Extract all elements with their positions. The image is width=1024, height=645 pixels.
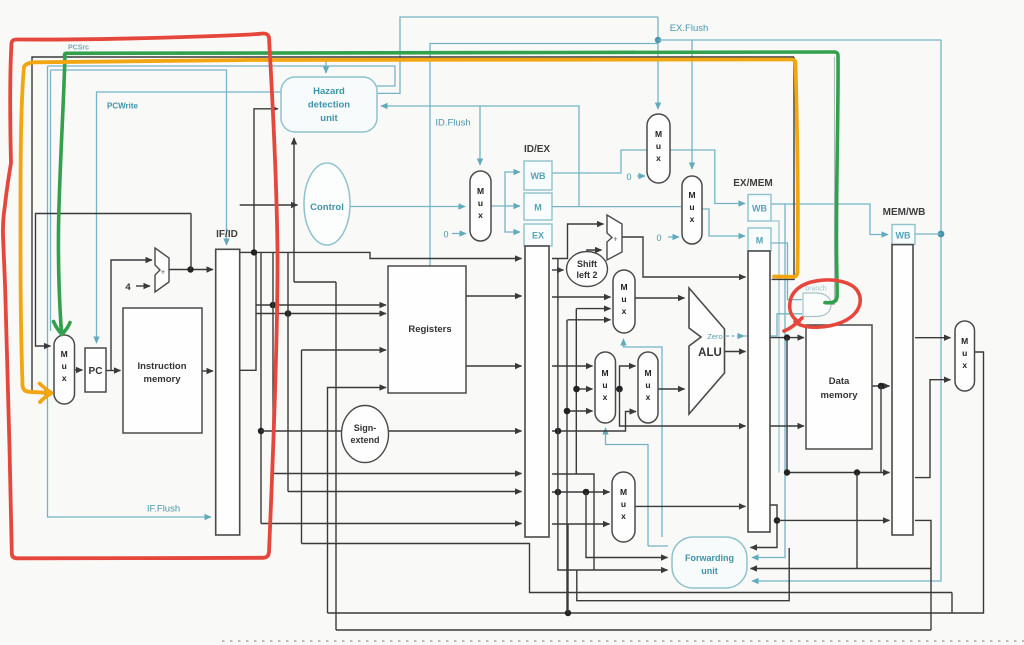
wire: IF/ID instruction output up to bus [240, 252, 256, 370]
svg-text:EX/MEM: EX/MEM [733, 178, 772, 189]
wire: control mux output fanout to ID/EX WB M EX [491, 172, 520, 206]
mux write register [612, 472, 635, 542]
wire: final mux output write back loop [328, 352, 984, 613]
wire: forward taps to mux B [577, 388, 593, 390]
node: read reg 1 junction [270, 302, 277, 309]
wire: EX/MEM WB control down to forwarding unit [752, 204, 785, 558]
orange trace of PC+4 flush path [20, 60, 797, 403]
svg-text:M: M [61, 349, 68, 359]
svg-text:PCSrc: PCSrc [68, 45, 89, 52]
svg-text:u: u [645, 380, 650, 390]
svg-text:M: M [655, 129, 662, 139]
wire: EX/MEM M branch signal to AND gate [771, 243, 802, 300]
svg-text:M: M [534, 203, 542, 213]
node: adder output junction [187, 266, 193, 272]
wire: EX.Flush horizontal to far right [658, 39, 941, 41]
svg-text:Hazard: Hazard [313, 86, 345, 97]
wire: registers numbers to write-reg mux [552, 491, 610, 493]
svg-text:IF.Flush: IF.Flush [147, 504, 180, 515]
wire: hazard unit to EX.Flush top line [377, 17, 658, 93]
AND gate branch [803, 293, 831, 317]
wire: read data 2 to forward mux B [552, 365, 593, 367]
wire: stall line down into hazard unit top [325, 60, 327, 73]
wire: ALUSrc mux output to ALU [658, 388, 685, 390]
svg-text:memory: memory [821, 390, 859, 401]
wire: adder output up [190, 214, 192, 270]
wire: zero constant into control mux [452, 233, 466, 235]
wire: PC to instruction memory [106, 370, 121, 372]
wire: EX.Flush mux output to EX/MEM WB [670, 150, 745, 204]
svg-text:+: + [613, 235, 618, 244]
wire: branch target top bus from EX/MEM back to PC mux [32, 57, 794, 393]
wire: Control output to zero mux [350, 206, 465, 208]
svg-text:x: x [62, 373, 67, 383]
svg-text:IF/ID: IF/ID [216, 229, 238, 240]
svg-text:ID/EX: ID/EX [524, 144, 550, 155]
wire: ID/EX M to M mux [552, 206, 681, 208]
svg-text:M: M [477, 186, 484, 196]
wire: forwarded EX/MEM value to mux A [568, 319, 611, 321]
mux forward A [613, 270, 635, 333]
wire: constant 4 into adder [136, 285, 150, 287]
wire: U link under forwarding unit [577, 548, 789, 601]
svg-text:u: u [602, 380, 607, 390]
svg-text:ALU: ALU [698, 347, 722, 359]
wire: hazard loop over top [48, 66, 396, 86]
wire: jog from hazard vertical [294, 281, 336, 283]
svg-text:u: u [621, 294, 626, 304]
mux M zero [682, 176, 702, 244]
svg-text:M: M [688, 190, 695, 200]
svg-text:WB: WB [752, 204, 767, 214]
svg-text:Control: Control [310, 202, 344, 213]
svg-text:M: M [620, 282, 627, 292]
wire: adder output to IF/ID [169, 269, 213, 271]
ellipse Sign-extend [342, 406, 389, 463]
Hazard detection unit [281, 77, 377, 132]
wire: zero into M mux [668, 236, 679, 238]
wire: vertical to bottom bus [335, 282, 337, 630]
svg-text:M: M [756, 236, 764, 246]
box Registers [388, 266, 466, 393]
register ID/EX main [525, 246, 549, 537]
svg-text:0: 0 [656, 233, 661, 243]
wire: rt field vertical [272, 252, 274, 473]
wire: branch adder output into EX/MEM [622, 237, 746, 277]
wire: forwarded ALU result down and to MEM/WB [787, 338, 890, 473]
wire: sign extend output to ID/EX [388, 430, 522, 432]
ellipse Shift left 2 [567, 252, 608, 287]
wire: PC mux output into PC [75, 369, 83, 371]
svg-text:0: 0 [443, 230, 448, 240]
svg-text:unit: unit [701, 566, 718, 576]
red circle around branch AND gate [784, 280, 860, 331]
svg-text:EX: EX [532, 231, 544, 241]
svg-text:EX.Flush: EX.Flush [670, 23, 709, 34]
wire: instruction bus horizontal [240, 252, 522, 258]
wire: ID/EX WB to EX.Flush mux [552, 150, 647, 173]
svg-text:PCWrite: PCWrite [107, 102, 139, 111]
wire: mux A output to ALU [635, 297, 685, 299]
wire: branch target exit from EX/MEM [772, 57, 795, 279]
mux EX.Flush WB [647, 114, 670, 183]
box Data memory [806, 325, 872, 449]
svg-text:x: x [478, 210, 483, 220]
svg-text:0: 0 [626, 172, 631, 182]
wire: lower loop bus [302, 544, 953, 593]
wire: PC value to adder [111, 260, 152, 371]
mux forward B [595, 352, 616, 423]
wire: registers read data 1 [466, 295, 522, 297]
wire: MEM/WB write reg number to forwarding unit [915, 520, 931, 630]
mux write back [955, 321, 975, 391]
node: junction at MEM/WB WB [938, 231, 945, 238]
wire: PCSrc select line [50, 70, 52, 331]
svg-text:ID.Flush: ID.Flush [435, 118, 470, 129]
svg-text:unit: unit [320, 113, 338, 124]
svg-text:extend: extend [350, 435, 379, 445]
register MEM/WB WB box [892, 225, 915, 245]
node: hazard branch junction [251, 249, 257, 255]
mux control zero [470, 171, 491, 241]
svg-text:u: u [962, 348, 967, 358]
svg-text:branch: branch [805, 286, 827, 293]
wire: AND gate output up to top bus [831, 57, 835, 305]
svg-text:u: u [689, 202, 694, 212]
svg-text:Zero: Zero [707, 332, 722, 341]
wire: ForwardA control from forwarding unit to mux A [624, 339, 663, 537]
svg-text:x: x [621, 511, 626, 521]
svg-text:u: u [478, 198, 483, 208]
Forwarding unit [672, 537, 747, 588]
wire: read data 1 to forward mux A [552, 296, 611, 298]
svg-text:u: u [656, 141, 661, 151]
svg-text:Sign-: Sign- [354, 423, 377, 433]
register EX/MEM main [748, 251, 770, 532]
wire: rs field vertical [260, 252, 262, 523]
wire: instruction memory to IF/ID [202, 370, 213, 372]
svg-text:detection: detection [308, 100, 350, 111]
svg-text:Shift: Shift [577, 259, 597, 269]
mux PCSrc [54, 335, 75, 404]
wire: shift left 2 to adder [587, 250, 602, 253]
register EX/MEM WB box [748, 195, 771, 222]
wire: zero flag to AND gate [744, 314, 802, 336]
svg-text:x: x [656, 153, 661, 163]
wire: right vertical down to MEM-WB WB and forwarding unit [752, 40, 941, 581]
wire: write-reg mux output into EX/MEM [635, 505, 746, 507]
wire: mux B output to ALUSrc mux and store data [616, 366, 636, 389]
register ID/EX M box [524, 193, 552, 220]
wire: write register number into Registers [301, 350, 303, 544]
node: sign extend tap [258, 428, 264, 434]
svg-text:u: u [62, 361, 67, 371]
wire: ALU result into EX/MEM [725, 351, 746, 353]
wire: branch down into control zero mux [479, 106, 481, 165]
wire: ID.Flush horizontal and vertical [430, 44, 658, 267]
svg-text:M: M [644, 368, 651, 378]
wire: bottom most bus [336, 629, 931, 631]
svg-text:+: + [161, 268, 166, 277]
svg-text:M: M [620, 487, 627, 497]
svg-text:x: x [962, 360, 967, 370]
svg-text:x: x [646, 392, 651, 402]
adder PC+4 [155, 248, 169, 292]
box Instruction memory [123, 308, 202, 433]
wire: rs down to forwarding unit [558, 259, 668, 570]
node: EX.Flush junction dot [655, 37, 661, 43]
wire: zero into EX.Flush mux [637, 175, 645, 177]
wire: branch down into M mux [691, 40, 693, 169]
register ID/EX WB box [524, 161, 552, 190]
svg-text:x: x [603, 392, 608, 402]
wire: write data into Registers [328, 388, 387, 614]
wire: EX/MEM WB control through to MEM/WB WB [785, 204, 888, 235]
wire: forwarded WB value to mux A [576, 308, 610, 310]
wire: MEM/WB value to final mux [915, 337, 951, 339]
wire: Zero flag dashed [726, 335, 744, 337]
svg-text:Forwarding: Forwarding [685, 553, 734, 563]
svg-text:u: u [621, 499, 626, 509]
red loop around IF and ID stages [3, 33, 278, 558]
svg-text:4: 4 [125, 282, 131, 293]
register ID/EX EX box [524, 224, 552, 246]
svg-text:WB: WB [531, 171, 546, 181]
svg-text:M: M [601, 368, 608, 378]
wire: EX.Flush vertical into top WB mux [657, 17, 659, 109]
wire: ID/EX memread up into hazard unit bottom [293, 138, 295, 282]
register MEM/WB main [892, 245, 913, 535]
wire: rd field vertical [287, 252, 289, 491]
svg-text:M: M [961, 336, 968, 346]
svg-text:x: x [690, 214, 695, 224]
box PC [85, 348, 106, 392]
wire: instruction up to hazard detection unit [254, 109, 278, 253]
wire: M mux output to EX/MEM M [702, 209, 745, 236]
wire: read register 2 line [256, 313, 386, 315]
wire: ID/EX memread into hazard unit [381, 106, 579, 207]
svg-text:WB: WB [896, 231, 911, 241]
wire: immediate into shift left 2 [552, 269, 564, 271]
wire: MEM/WB WB box link [915, 233, 941, 235]
wire: ALU result out of EX/MEM to data memory [768, 337, 804, 339]
wire: rt down to forwarding unit [586, 492, 668, 558]
svg-text:Instruction: Instruction [137, 361, 186, 372]
register IF/ID [216, 249, 240, 535]
mux ALUSrc [638, 352, 658, 423]
svg-text:PC: PC [89, 366, 103, 377]
wire: data memory value loop to final mux [915, 380, 951, 478]
wire: read register 1 line [256, 304, 386, 306]
ALU [689, 288, 725, 414]
adder branch target [607, 215, 622, 260]
wire: store data into data memory [768, 425, 804, 427]
wire: EX/MEM ALU value down to forwarding unit [856, 473, 858, 569]
wire: PC+4 out of ID/EX to branch adder [552, 224, 604, 259]
wire: instruction to Control [240, 204, 298, 206]
register EX/MEM M box [748, 228, 771, 251]
svg-text:Data: Data [829, 376, 850, 387]
wire: ForwardB control from forwarding unit to mux B [606, 428, 649, 546]
svg-text:x: x [622, 306, 627, 316]
ellipse Control [304, 163, 350, 245]
wire: write back branch to write-reg mux [567, 524, 569, 613]
wire: IF/ID write line [51, 70, 227, 245]
wire: data memory output to MEM/WB [872, 385, 890, 387]
wire: PC+4 loop back to PC mux [36, 214, 192, 347]
svg-text:memory: memory [144, 374, 182, 385]
wire: PCWrite from hazard unit to PC [97, 92, 282, 343]
wire: sign extend value up into ALUSrc mux [552, 412, 636, 432]
svg-text:left 2: left 2 [576, 270, 597, 280]
wire: rs rt rd buses into ID/EX [273, 473, 522, 475]
wire: IF.Flush vertical and into IF/ID [48, 66, 212, 517]
wire: EX/MEM M control strand down [771, 221, 779, 473]
svg-text:MEM/WB: MEM/WB [883, 207, 926, 218]
wire: registers read data 2 [466, 365, 522, 367]
node: read reg 2 junction [285, 310, 292, 317]
wire: ID/EX rs tap [552, 474, 594, 570]
wire: sign extend input [261, 430, 342, 432]
wire: write register number through EX/MEM [751, 505, 778, 548]
mux letter labels [61, 129, 969, 521]
svg-text:Registers: Registers [408, 324, 451, 335]
green trace of branch path [54, 52, 839, 335]
